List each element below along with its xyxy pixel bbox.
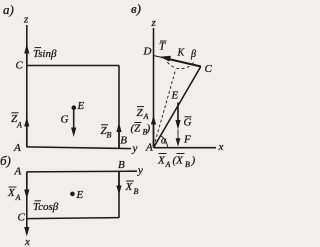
svg-text:): ) [191,155,196,167]
svg-text:X: X [125,181,134,193]
angle alpha arc at A (fig v) [161,136,168,148]
svg-text:б): б) [0,153,11,168]
svg-text:E: E [171,90,179,102]
svg-text:A: A [13,142,21,154]
plate bottom side / y axis (fig a) [27,147,131,149]
force Z_B arrow at B (fig a) [118,130,120,148]
svg-text:x: x [218,141,224,153]
z axis (fig a, left side of plate) [26,25,28,147]
svg-text:D: D [143,46,152,58]
plate bottom side (fig b) [27,218,119,219]
plate right side (fig b) [118,171,120,217]
force X_A arrow at A (fig b) [26,172,28,191]
point E dot (fig a) [72,105,77,110]
svg-text:A: A [15,193,21,202]
force G arrow at E (fig a) [73,110,75,129]
force Z_A arrow at A (fig a) [26,124,28,147]
svg-text:y: y [132,143,138,155]
svg-text:A: A [14,166,22,178]
svg-text:β: β [190,49,196,60]
svg-text:(X: (X [173,155,185,167]
svg-text:G: G [184,117,192,129]
svg-text:Z: Z [137,107,144,119]
force F arrowhead at x axis [176,138,181,146]
svg-text:(Z: (Z [131,123,142,135]
svg-text:E: E [77,100,85,112]
force Tsin(beta) arrow at C [26,52,28,66]
plate top side / y axis (fig b) [27,170,137,173]
z axis (fig v) [153,28,155,148]
svg-text:B: B [107,131,112,140]
force X_B arrow at B (fig b) [118,171,120,187]
svg-text:z: z [23,14,29,26]
plate right side (fig a) [118,66,120,149]
svg-text:A: A [165,160,171,169]
svg-text:B: B [185,160,190,169]
svg-text:C: C [205,63,213,75]
svg-text:B: B [120,135,127,147]
point E dot (fig b) [70,192,75,197]
svg-text:C: C [16,60,24,72]
dashed angle arc at K [166,60,194,69]
svg-text:Tsinβ: Tsinβ [33,48,57,60]
svg-text:B: B [134,187,139,196]
svg-text:E: E [76,189,84,201]
force T arrow along CD [168,59,201,67]
svg-text:B: B [118,159,125,171]
svg-text:C: C [18,212,26,224]
svg-text:A: A [143,112,149,121]
svg-text:T: T [159,41,166,53]
svg-text:A: A [145,142,153,154]
force G arrow at E (fig v) [177,103,179,123]
svg-text:A: A [16,121,22,130]
plate edge AC (fig v) [154,67,201,148]
svg-text:z: z [151,17,157,29]
plate top side CB' (fig a) [27,65,119,67]
rope DC (fig v) [154,56,201,67]
force Z_A arrow on z axis (fig v) [153,123,155,147]
svg-text:): ) [146,123,151,135]
svg-text:F: F [183,133,191,145]
svg-text:y: y [137,165,143,177]
plate left side (fig b) [26,172,28,219]
svg-text:а): а) [3,2,14,17]
svg-text:x: x [24,236,30,247]
x axis (fig b) [26,218,28,229]
svg-text:K: K [177,48,186,59]
force F arrow shaft below G arrow [177,130,179,140]
dashed construction line A-K [154,69,176,146]
x axis (fig v) [154,147,217,149]
svg-text:Tcosβ: Tcosβ [33,201,59,213]
svg-text:G: G [61,114,69,126]
svg-text:в): в) [131,1,141,16]
